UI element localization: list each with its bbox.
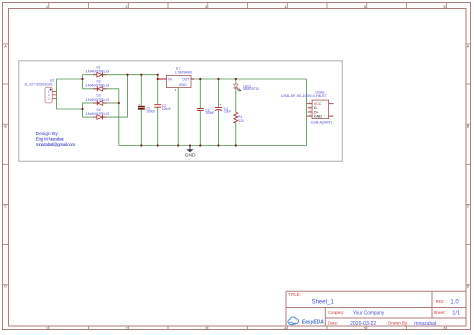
svg-text:TITLE:: TITLE: bbox=[288, 292, 301, 297]
wire U1 GND stem bbox=[177, 88, 179, 146]
svg-text:A: A bbox=[4, 45, 7, 49]
svg-text:MAR25T10: MAR25T10 bbox=[243, 87, 259, 91]
svg-text:Eng M Nazabat: Eng M Nazabat bbox=[36, 136, 65, 141]
wire D4 anode lead bbox=[83, 116, 97, 118]
svg-text:4: 4 bbox=[285, 5, 287, 9]
svg-text:Company:: Company: bbox=[328, 310, 344, 315]
frame row letters bbox=[4, 45, 470, 289]
svg-text:Design By:: Design By: bbox=[36, 131, 59, 136]
svg-text:GND: GND bbox=[179, 83, 187, 87]
svg-text:2020-03-22: 2020-03-22 bbox=[350, 321, 376, 327]
wire V- drop to ground rail bbox=[118, 103, 120, 146]
svg-text:D: D bbox=[467, 285, 470, 289]
svg-text:1000u: 1000u bbox=[146, 109, 155, 113]
svg-text:1N4007RLG: 1N4007RLG bbox=[85, 112, 109, 116]
svg-text:2: 2 bbox=[175, 88, 177, 92]
wire D2 anode to D3 node bbox=[103, 89, 119, 103]
svg-text:6: 6 bbox=[444, 5, 446, 9]
ground symbol bbox=[185, 146, 196, 158]
svg-text:1/1: 1/1 bbox=[452, 310, 460, 316]
wire OUT rail bbox=[194, 78, 307, 80]
wire ground rail bbox=[119, 145, 307, 147]
svg-text:JL.127-50903G01: JL.127-50903G01 bbox=[24, 82, 53, 86]
svg-text:Date:: Date: bbox=[328, 320, 338, 325]
frame column ticks top bbox=[49, 3, 447, 9]
diode D2 bbox=[85, 80, 109, 92]
capacitor C4 polarized bbox=[215, 103, 231, 113]
svg-text:REV:: REV: bbox=[436, 299, 445, 304]
diode D4 bbox=[85, 108, 109, 120]
wire C4 vertical bbox=[218, 79, 220, 146]
svg-text:1N4007RLG: 1N4007RLG bbox=[85, 70, 109, 74]
design by text bbox=[36, 131, 76, 147]
connector U2 bbox=[24, 79, 56, 103]
svg-text:IN: IN bbox=[168, 77, 172, 81]
svg-text:L7805ABV: L7805ABV bbox=[175, 70, 193, 74]
capacitor C1 electrolytic bbox=[138, 102, 155, 114]
svg-text:C: C bbox=[4, 205, 7, 209]
svg-text:Your Company: Your Company bbox=[353, 311, 385, 317]
svg-text:B: B bbox=[4, 125, 7, 129]
diode pin leads (red stubs) bbox=[93, 75, 107, 117]
wire C3 vertical bbox=[199, 79, 201, 146]
LED LED1 bbox=[233, 84, 259, 91]
svg-text:USB-AF-90-10X9.4-H6.57: USB-AF-90-10X9.4-H6.57 bbox=[281, 94, 327, 98]
EasyEDA logo bbox=[288, 317, 324, 326]
svg-text:6: 6 bbox=[444, 326, 446, 330]
title block values bbox=[312, 299, 460, 327]
svg-text:10uF: 10uF bbox=[224, 109, 231, 113]
svg-text:220: 220 bbox=[238, 119, 244, 123]
wire bridge left vertical top AC1 bbox=[82, 75, 84, 89]
svg-text:1.0: 1.0 bbox=[450, 299, 459, 305]
svg-text:mnazabat: mnazabat bbox=[414, 321, 436, 327]
title block bbox=[286, 291, 466, 326]
wire D2 cathode lead bbox=[83, 88, 97, 90]
svg-text:C: C bbox=[467, 205, 470, 209]
svg-text:B: B bbox=[467, 125, 470, 129]
svg-text:+: + bbox=[139, 102, 141, 106]
svg-text:1N4007RLG: 1N4007RLG bbox=[85, 98, 109, 102]
svg-text:2: 2 bbox=[126, 326, 128, 330]
resistor R1 bbox=[234, 112, 244, 123]
frame row ticks right bbox=[466, 44, 471, 285]
svg-text:3: 3 bbox=[205, 5, 207, 9]
wire C2 vertical bbox=[157, 75, 159, 146]
svg-text:Sheet:: Sheet: bbox=[434, 310, 446, 315]
wire V+ rail from D1 to C2 node bbox=[103, 74, 158, 76]
svg-text:+: + bbox=[219, 103, 221, 107]
schematic bounding box bbox=[19, 61, 343, 162]
wire D1 anode lead bbox=[83, 74, 97, 76]
svg-text:GND: GND bbox=[314, 114, 323, 118]
svg-text:EasyEDA: EasyEDA bbox=[302, 320, 324, 326]
wire D3 anode lead bbox=[103, 102, 119, 104]
wire D4 cathode up to V+ bbox=[103, 75, 127, 117]
title block labels bbox=[288, 292, 446, 325]
svg-text:mnazabat@gmail.com: mnazabat@gmail.com bbox=[36, 142, 76, 147]
svg-text:1: 1 bbox=[46, 326, 48, 330]
svg-text:100nF: 100nF bbox=[162, 107, 171, 111]
svg-text:3: 3 bbox=[205, 326, 207, 330]
svg-text:2: 2 bbox=[126, 5, 128, 9]
wire C1 vertical bbox=[140, 75, 142, 146]
diode D1 bbox=[85, 65, 109, 77]
connector USB1 bbox=[281, 91, 333, 125]
wire D3 cathode lead bbox=[83, 102, 97, 104]
svg-text:D: D bbox=[4, 285, 7, 289]
svg-text:4: 4 bbox=[285, 326, 287, 330]
capacitor C2 bbox=[154, 105, 161, 108]
svg-text:100nF: 100nF bbox=[205, 111, 214, 115]
svg-text:Drawn By:: Drawn By: bbox=[388, 320, 408, 325]
capacitor C3 bbox=[197, 109, 204, 111]
svg-text:5: 5 bbox=[364, 5, 366, 9]
frame row ticks left bbox=[3, 44, 9, 285]
svg-text:1N4007RLG: 1N4007RLG bbox=[85, 84, 109, 88]
frame column ticks bottom bbox=[49, 326, 447, 330]
junction dots bbox=[81, 74, 237, 147]
wire LED R1 vertical bbox=[235, 79, 237, 146]
svg-text:1: 1 bbox=[46, 5, 48, 9]
svg-text:GND: GND bbox=[185, 152, 196, 157]
svg-text:USB-A(SMT): USB-A(SMT) bbox=[311, 121, 332, 125]
diode D3 bbox=[85, 94, 109, 106]
svg-text:A: A bbox=[467, 45, 470, 49]
wire bridge left vertical bottom AC2 bbox=[82, 103, 84, 117]
wire VCC to USB loop bbox=[306, 79, 308, 146]
svg-text:OUT: OUT bbox=[182, 77, 190, 81]
regulator U1 bbox=[158, 67, 194, 93]
wire U2 loop bbox=[57, 79, 83, 109]
svg-text:Sheet_1: Sheet_1 bbox=[312, 299, 335, 305]
